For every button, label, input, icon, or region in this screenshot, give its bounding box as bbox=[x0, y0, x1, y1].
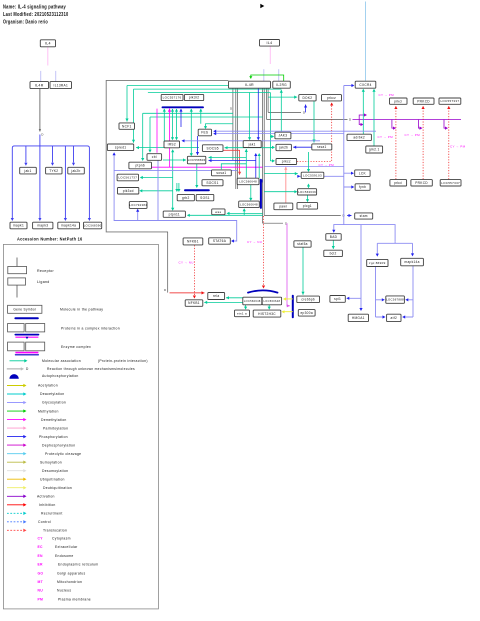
svg-text:Molecular association: Molecular association bbox=[42, 359, 81, 363]
node LOC568390 bbox=[84, 222, 102, 229]
legend row Sumoylation bbox=[7, 460, 62, 464]
svg-text:CXCR4: CXCR4 bbox=[359, 83, 371, 87]
svg-text:Dephosphorylation: Dephosphorylation bbox=[42, 443, 75, 447]
node LOC557337-CY bbox=[440, 180, 461, 186]
svg-text:Proteins in a complex interact: Proteins in a complex interaction bbox=[61, 326, 120, 330]
svg-text:Endosome: Endosome bbox=[55, 554, 74, 558]
svg-text:LOC568390: LOC568390 bbox=[84, 224, 102, 228]
wire teal sosa1 feed bbox=[221, 164, 246, 169]
node LOC557176 bbox=[161, 94, 183, 100]
svg-text:jak1: jak1 bbox=[248, 142, 256, 146]
legend receptor bbox=[8, 258, 27, 274]
svg-text:Acetylation: Acetylation bbox=[38, 384, 58, 388]
svg-text:Methylation: Methylation bbox=[38, 409, 59, 413]
node spi1 bbox=[330, 296, 345, 303]
node prkci-PM bbox=[390, 98, 408, 104]
legend compartment ER bbox=[38, 563, 99, 567]
wire periwinkle LCK tips bbox=[351, 84, 354, 87]
svg-text:mapk14a: mapk14a bbox=[61, 224, 76, 228]
svg-text:stat5a: stat5a bbox=[297, 242, 307, 246]
node NFKB1-NU bbox=[185, 300, 203, 307]
node LOC558806 bbox=[187, 156, 205, 164]
svg-text:IL4R: IL4R bbox=[245, 83, 254, 87]
svg-text:LOC560648: LOC560648 bbox=[264, 299, 281, 303]
node sosa1 bbox=[212, 170, 232, 176]
svg-text:grk2.1: grk2.1 bbox=[369, 148, 380, 152]
node stat5a bbox=[294, 241, 311, 247]
wire teal LOC558806 right bbox=[209, 156, 247, 159]
node LOC563639 bbox=[298, 189, 317, 195]
svg-text:STAT6A: STAT6A bbox=[213, 239, 227, 243]
svg-text:Last Modified: 20210523112310: Last Modified: 20210523112310 bbox=[3, 12, 69, 18]
svg-text:Accession Number: NetPath 16: Accession Number: NetPath 16 bbox=[17, 236, 83, 241]
svg-text:zgc:86909: zgc:86909 bbox=[369, 261, 386, 265]
node zgc:86909 bbox=[367, 259, 388, 266]
wire transloc NFKB1 bbox=[193, 245, 196, 298]
legend row Methylation bbox=[7, 409, 59, 413]
wire teal top h1 bbox=[127, 85, 233, 87]
svg-text:Glycosylation: Glycosylation bbox=[42, 401, 66, 405]
wire teal nested h4 bbox=[143, 113, 233, 160]
wire teal top h2 bbox=[134, 88, 282, 90]
legend ligand bbox=[8, 278, 26, 298]
svg-text:CY → PM: CY → PM bbox=[378, 135, 394, 139]
wire teal nested h5 cbl bbox=[150, 117, 263, 152]
svg-text:D: D bbox=[164, 288, 167, 292]
svg-text:CY → PM: CY → PM bbox=[405, 133, 421, 137]
node SOS1 bbox=[196, 194, 214, 200]
wire blue LOC558806 top bbox=[196, 136, 199, 155]
node ptpn6 bbox=[129, 162, 152, 169]
wire periwinkle mapk14a-nu vert join bbox=[394, 241, 396, 243]
svg-text:Sumoylation: Sumoylation bbox=[40, 460, 62, 464]
svg-text:atf2: atf2 bbox=[391, 316, 398, 320]
svg-text:jak2b: jak2b bbox=[70, 169, 80, 173]
node LOC561737 bbox=[117, 174, 138, 181]
svg-text:Plasma membrane: Plasma membrane bbox=[58, 597, 91, 601]
wire stem IL2RG bbox=[278, 69, 280, 81]
legend row Recruitment bbox=[7, 512, 63, 516]
svg-text:mapk3: mapk3 bbox=[37, 224, 48, 228]
node HIST2H3C bbox=[253, 310, 281, 317]
legend row Palmitoylation bbox=[7, 426, 68, 430]
wire teal DOK2-rasa1 bbox=[312, 101, 315, 143]
node LOC560648-NUb bbox=[262, 297, 281, 305]
wire teal complex-NFKB1nu bbox=[204, 301, 243, 304]
svg-text:IL2RG: IL2RG bbox=[276, 83, 287, 87]
wire peri IRS2 input bbox=[183, 140, 320, 142]
svg-text:LOC559103: LOC559103 bbox=[303, 173, 322, 177]
wire magenta ptpn6 h bbox=[152, 166, 263, 168]
svg-text:NCF1: NCF1 bbox=[122, 124, 132, 128]
node jak1-cell bbox=[243, 141, 261, 148]
svg-text:Receptor: Receptor bbox=[37, 269, 54, 273]
svg-text:jak1: jak1 bbox=[23, 169, 31, 173]
wire gray rela unknown bbox=[167, 232, 169, 293]
node spred1 bbox=[107, 144, 133, 151]
svg-text:IL4R: IL4R bbox=[35, 83, 44, 87]
svg-text:Reaction through unknown mecha: Reaction through unknown mechanisms/mole… bbox=[47, 367, 135, 371]
node IL2RG bbox=[273, 81, 291, 88]
wire IL4 left ligand bbox=[47, 47, 49, 65]
node JAK3 bbox=[275, 132, 291, 139]
node DOK2 bbox=[299, 95, 316, 101]
wire periwinkle LCK trunk bbox=[334, 86, 413, 310]
legend compartment PM bbox=[38, 597, 91, 601]
node IL4R-main bbox=[229, 81, 271, 88]
svg-text:Ligand: Ligand bbox=[37, 280, 50, 284]
node mapk3 bbox=[33, 222, 53, 229]
svg-text:GO: GO bbox=[38, 571, 44, 575]
svg-text:PRKCD: PRKCD bbox=[415, 181, 428, 185]
svg-text:plcg1: plcg1 bbox=[303, 204, 312, 208]
wire blue LOC558806 right bbox=[209, 159, 256, 162]
node pik3cd bbox=[118, 188, 139, 195]
svg-text:D: D bbox=[349, 118, 352, 122]
svg-text:TYK2: TYK2 bbox=[49, 169, 58, 173]
svg-text:rela: rela bbox=[213, 294, 220, 298]
svg-text:pik3r2: pik3r2 bbox=[189, 96, 199, 100]
svg-text:Nucleus: Nucleus bbox=[57, 589, 71, 593]
svg-text:NFKB1: NFKB1 bbox=[187, 240, 199, 244]
node IL4-main bbox=[260, 40, 280, 47]
node CXCR4 bbox=[355, 81, 376, 88]
svg-text:LOC560648: LOC560648 bbox=[240, 202, 258, 206]
svg-text:CY → NU: CY → NU bbox=[179, 261, 194, 265]
svg-text:Gene Symbol: Gene Symbol bbox=[13, 308, 36, 312]
svg-text:D: D bbox=[41, 133, 44, 137]
wire teal NU histone arrows bbox=[246, 305, 270, 309]
legend row Demethylation bbox=[7, 418, 67, 422]
node NFKB1-CY bbox=[183, 238, 203, 245]
wire gray D-edge to stam bbox=[264, 215, 341, 217]
svg-text:Molecule in the pathway: Molecule in the pathway bbox=[60, 308, 103, 312]
svg-text:MT: MT bbox=[38, 580, 44, 584]
svg-text:was: was bbox=[215, 210, 221, 214]
node ets1a bbox=[235, 310, 250, 317]
node IRS2 bbox=[164, 141, 180, 148]
node FES bbox=[198, 129, 211, 136]
wire teal complex-rela bbox=[226, 296, 243, 299]
node jak2b-left bbox=[68, 167, 85, 174]
wire teal LOC558806 left bbox=[163, 158, 186, 161]
legend compartment MT bbox=[38, 580, 83, 584]
svg-text:prkci: prkci bbox=[394, 181, 402, 185]
svg-text:prkcz: prkcz bbox=[327, 96, 336, 100]
node ptpn11 bbox=[163, 211, 185, 217]
svg-text:IL13RA1: IL13RA1 bbox=[54, 83, 69, 87]
wire transloc PRKCD bbox=[422, 106, 425, 179]
svg-text:Proteolytic cleavage: Proteolytic cleavage bbox=[45, 452, 81, 456]
cell membrane outline bbox=[106, 80, 228, 232]
wire blue complex-bracket arrow bbox=[259, 180, 262, 182]
svg-text:LCK: LCK bbox=[359, 171, 367, 175]
node crebbpb bbox=[297, 296, 320, 303]
node rela bbox=[208, 293, 225, 300]
wire magenta ptpn6 dephos complex bbox=[168, 109, 171, 168]
node prkci-CY bbox=[390, 180, 407, 186]
node cbl bbox=[147, 154, 162, 161]
node IL4-left bbox=[40, 40, 55, 47]
legend assoc arrow bbox=[10, 359, 28, 362]
svg-text:Cytoplasm: Cytoplasm bbox=[52, 537, 71, 541]
svg-text:SOS1: SOS1 bbox=[200, 196, 210, 200]
legend row Proteolytic cleavage bbox=[7, 452, 81, 456]
wire green IL2RG-IL4R association bbox=[249, 75, 284, 81]
svg-text:EN: EN bbox=[38, 554, 44, 558]
node LOC792384 bbox=[129, 202, 147, 209]
svg-text:pawr: pawr bbox=[279, 205, 288, 209]
legend unknown arrow bbox=[7, 367, 24, 370]
node LOC560648-b bbox=[239, 201, 260, 208]
yellow acetylation wires bbox=[283, 299, 293, 312]
wire magenta unknown to NU complex bbox=[287, 223, 290, 307]
wire teal complex-bar tips bbox=[163, 109, 166, 112]
svg-text:adrbk2: adrbk2 bbox=[353, 136, 365, 140]
svg-text:ep300a: ep300a bbox=[300, 311, 312, 315]
wire teal spred1 top bbox=[132, 89, 135, 143]
legend row Phosphorylation bbox=[7, 435, 68, 439]
svg-text:LOC557337: LOC557337 bbox=[441, 181, 460, 185]
autophosphorylation arc NU complex bbox=[248, 290, 278, 292]
wire teal complex-ptpn11 bbox=[188, 209, 263, 215]
svg-text:LOC561737: LOC561737 bbox=[118, 176, 137, 180]
wire blue fanout trunk bbox=[12, 135, 89, 220]
wire transloc prkci bbox=[394, 106, 397, 179]
node STAT6A bbox=[209, 238, 231, 244]
legend complex boxes bbox=[8, 324, 45, 332]
wire IL4 main ligand bbox=[269, 46, 271, 64]
wire teal SOCS5 right bbox=[225, 146, 272, 149]
node grk2.1 bbox=[366, 146, 383, 153]
svg-text:NFKB1: NFKB1 bbox=[188, 301, 200, 305]
wire stem IL4R-main bbox=[263, 69, 265, 81]
svg-text:Extracellular: Extracellular bbox=[55, 545, 78, 549]
wire purple arrowtips bbox=[364, 113, 367, 116]
svg-text:LOC567888: LOC567888 bbox=[386, 298, 404, 302]
legend row Activation bbox=[7, 495, 55, 499]
svg-text:rasa1: rasa1 bbox=[317, 145, 326, 149]
node mapk14a-NU bbox=[401, 258, 424, 266]
legend row Control bbox=[7, 520, 51, 524]
node PRKCD-PM bbox=[413, 98, 434, 104]
wire teal jak2b prkcz stem bbox=[270, 93, 273, 162]
wire gray D-edge down bbox=[263, 222, 283, 224]
legend enzyme boxes bbox=[8, 342, 45, 351]
node jak2b-cell bbox=[276, 144, 291, 150]
node LOC560648-NUa bbox=[243, 297, 262, 305]
legend compartment NU bbox=[38, 589, 72, 593]
wire peri FES inputs bbox=[215, 131, 376, 133]
wire teal top h3 bbox=[148, 92, 271, 94]
svg-text:spred1: spred1 bbox=[115, 146, 127, 150]
svg-text:LOC557176: LOC557176 bbox=[163, 96, 182, 100]
legend autophosphorylation arc bbox=[9, 374, 18, 379]
svg-text:LOC557337: LOC557337 bbox=[440, 99, 459, 103]
node adrbk2 bbox=[347, 134, 371, 140]
svg-text:fynb: fynb bbox=[359, 185, 366, 189]
svg-text:Organism: Danio rerio: Organism: Danio rerio bbox=[3, 19, 48, 25]
wire stem IL13RA1 bbox=[55, 71, 57, 82]
svg-text:PRKCD: PRKCD bbox=[417, 99, 430, 103]
wire teal IL2RG-JAK3 bbox=[280, 90, 283, 132]
wire jak1 top inputs bbox=[250, 89, 259, 140]
svg-text:Enzyme complex: Enzyme complex bbox=[61, 345, 91, 349]
node mapk14a-left bbox=[58, 222, 80, 229]
wire teal DOK2 left bbox=[268, 96, 297, 99]
svg-text:LOC560648: LOC560648 bbox=[244, 299, 261, 303]
svg-text:ets1 a: ets1 a bbox=[237, 312, 247, 316]
svg-text:Mitochondrion: Mitochondrion bbox=[57, 580, 82, 584]
wire periwinkle LOC567888 atf2 bracket bbox=[376, 266, 414, 317]
svg-text:Inhibition: Inhibition bbox=[39, 503, 56, 507]
wire gray stem pair d2 bbox=[267, 89, 269, 113]
legend row Deubiquitination bbox=[7, 486, 72, 490]
legend row Deacetylation bbox=[7, 392, 64, 396]
node LOC560648-a bbox=[237, 178, 259, 185]
node IL4R-left bbox=[30, 82, 49, 89]
svg-text:Activation: Activation bbox=[37, 495, 55, 499]
wire gray stem pair b2 bbox=[236, 89, 238, 190]
legend complex bar bbox=[15, 317, 37, 319]
wire transloc prkcz bbox=[297, 103, 333, 162]
legend compartment EC bbox=[38, 545, 79, 549]
svg-text:Translocation: Translocation bbox=[43, 529, 67, 533]
node IL13RA1 bbox=[50, 82, 72, 89]
wire teal stat5a-crebbpb bbox=[301, 247, 304, 294]
wire purple activation tree bbox=[353, 115, 462, 128]
svg-text:IRS2: IRS2 bbox=[168, 143, 176, 147]
wire gray stem pair c bbox=[262, 89, 264, 224]
wire red rela inhibition bbox=[170, 291, 205, 294]
node fynb bbox=[355, 184, 370, 191]
node NCF1 bbox=[119, 123, 135, 129]
svg-text:Deacetylation: Deacetylation bbox=[40, 392, 64, 396]
svg-text:CY: CY bbox=[38, 537, 44, 541]
node plcg1 bbox=[297, 203, 318, 210]
wire gray D-edge to purple tree bbox=[267, 119, 348, 121]
wire teal complex-bar risers bbox=[164, 109, 233, 155]
wire gray D-edge to DOK2 bbox=[268, 111, 301, 113]
node LOC567888 bbox=[386, 296, 405, 303]
node LOC557337-PM bbox=[439, 98, 461, 104]
svg-text:HMGA1: HMGA1 bbox=[352, 316, 365, 320]
node atf2 bbox=[387, 314, 401, 321]
complex bar grb2-SOS1 bbox=[185, 189, 209, 191]
svg-text:Golgi apparatus: Golgi apparatus bbox=[57, 571, 85, 575]
svg-text:crebbpb: crebbpb bbox=[301, 298, 315, 302]
svg-text:Recruitment: Recruitment bbox=[41, 512, 63, 516]
svg-text:prkcz: prkcz bbox=[282, 160, 291, 164]
wire teal IRS2 branch tips bbox=[171, 149, 174, 152]
wire teal CXCR4 stems bbox=[363, 90, 374, 146]
svg-text:CY → PM: CY → PM bbox=[379, 93, 395, 97]
node HMGA1 bbox=[348, 314, 368, 321]
svg-text:spi1: spi1 bbox=[334, 297, 341, 301]
node was bbox=[212, 209, 225, 215]
svg-text:ptpn11: ptpn11 bbox=[169, 212, 180, 216]
node LCK bbox=[355, 170, 370, 177]
wire peri prkcz lower h bbox=[264, 165, 344, 167]
svg-text:Deubiquitination: Deubiquitination bbox=[43, 486, 72, 490]
legend enzyme bars top bbox=[15, 335, 38, 340]
wire blue jak2b input bbox=[293, 146, 312, 149]
node rasa1 bbox=[312, 144, 332, 150]
svg-text:ER: ER bbox=[38, 563, 44, 567]
svg-text:DOK2: DOK2 bbox=[302, 96, 312, 100]
svg-text:pik3cd: pik3cd bbox=[123, 189, 134, 193]
svg-text:SOCS5: SOCS5 bbox=[207, 146, 219, 150]
wire teal IRS2 branch bbox=[141, 151, 173, 210]
svg-text:Ubiquitination: Ubiquitination bbox=[40, 477, 65, 481]
svg-text:NU: NU bbox=[38, 589, 44, 593]
svg-text:LOC792384: LOC792384 bbox=[129, 203, 147, 207]
wire transloc complex CY-NU bbox=[262, 216, 265, 289]
svg-text:Endoplasmic reticulum: Endoplasmic reticulum bbox=[58, 563, 98, 567]
legend compartment EN bbox=[38, 554, 74, 558]
node stam bbox=[355, 213, 373, 219]
svg-text:Phosphorylation: Phosphorylation bbox=[39, 435, 68, 439]
svg-text:(Protein-protein interaction): (Protein-protein interaction) bbox=[98, 359, 148, 363]
wire jak1 bottom inputs bbox=[255, 154, 257, 178]
node jak1-left bbox=[20, 167, 37, 174]
svg-text:sosa1: sosa1 bbox=[216, 171, 226, 175]
svg-text:CY → NU: CY → NU bbox=[247, 240, 262, 244]
legend box bbox=[3, 244, 158, 609]
svg-text:LOC560648: LOC560648 bbox=[239, 180, 257, 184]
wire teal jak1 assoc bbox=[245, 149, 248, 178]
svg-text:D: D bbox=[26, 367, 29, 371]
wire teal grb2 arrows bbox=[177, 164, 197, 191]
svg-text:PM: PM bbox=[38, 597, 44, 601]
wire salmon pawr inhibition bbox=[284, 167, 287, 203]
wire gray stem pair c2 bbox=[263, 89, 265, 216]
legend row Dephosphorylation bbox=[7, 443, 75, 447]
svg-text:Palmitoylation: Palmitoylation bbox=[43, 426, 68, 430]
svg-text:LOC558806: LOC558806 bbox=[188, 158, 206, 162]
svg-text:prkci: prkci bbox=[394, 99, 402, 103]
legend row Acetylation bbox=[7, 384, 58, 388]
wire teal LOC559103 left bbox=[264, 172, 298, 175]
wire teal spred1 right bbox=[136, 146, 199, 149]
wire teal BAD-bcl2 bbox=[332, 240, 335, 249]
svg-text:ptpn6: ptpn6 bbox=[135, 164, 144, 168]
svg-text:Demethylation: Demethylation bbox=[41, 418, 67, 422]
legend row Glycosylation bbox=[7, 401, 66, 405]
svg-text:Name: IL-4 signaling pathway: Name: IL-4 signaling pathway bbox=[3, 4, 66, 10]
wire blue fanout tips bbox=[24, 163, 27, 166]
wire teal complex pair bbox=[250, 185, 252, 200]
node LOC559103 bbox=[301, 172, 324, 178]
svg-text:jak2b: jak2b bbox=[278, 146, 288, 150]
svg-text:Control: Control bbox=[38, 520, 51, 524]
legend compartment CY bbox=[38, 537, 71, 541]
wire stem IL4R-left bbox=[40, 71, 42, 82]
wire transloc LOC557337 bbox=[447, 106, 450, 179]
svg-text:LOC563639: LOC563639 bbox=[298, 190, 316, 194]
svg-text:CY → PM: CY → PM bbox=[450, 145, 466, 149]
legend row Desumoylation bbox=[7, 469, 68, 473]
wire magenta cbl feed bbox=[156, 109, 158, 153]
wire peri LOC559103 left blue bbox=[299, 175, 344, 177]
svg-text:JAK3: JAK3 bbox=[278, 134, 287, 138]
svg-text:Desumoylation: Desumoylation bbox=[42, 469, 68, 473]
wire teal complex-was bbox=[228, 212, 263, 214]
legend row Ubiquitination bbox=[7, 477, 65, 481]
wire teal LOC559103 chain bbox=[264, 152, 308, 201]
node SOCS1 bbox=[202, 180, 223, 186]
wire periwinkle spred loop bbox=[114, 155, 237, 241]
